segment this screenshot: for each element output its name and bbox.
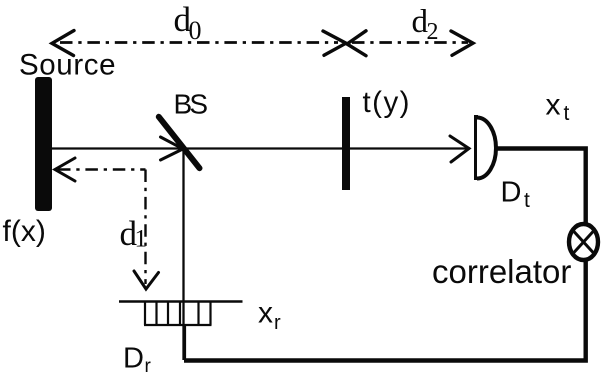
node d2 right arrowhead bbox=[451, 31, 473, 55]
wire d2 dash-dot distance line bbox=[352, 41, 468, 44]
svg-text:x: x bbox=[546, 89, 561, 122]
svg-text:t(y): t(y) bbox=[363, 86, 410, 119]
svg-text:BS: BS bbox=[174, 89, 209, 120]
correlator multiplier symbol bbox=[569, 224, 598, 260]
detector Dr comb bottom line bbox=[144, 324, 212, 326]
svg-text:x: x bbox=[258, 297, 273, 330]
svg-text:1: 1 bbox=[135, 226, 148, 253]
svg-text:D: D bbox=[123, 343, 144, 375]
wire thick output from Dt to correlator to Dr bbox=[184, 149, 586, 361]
wire main beam horizontal line bbox=[52, 147, 470, 149]
node d1 down arrowhead bbox=[134, 271, 159, 289]
svg-text:r: r bbox=[145, 356, 152, 377]
svg-text:2: 2 bbox=[427, 19, 439, 45]
svg-text:D: D bbox=[501, 177, 522, 209]
node d2 left arrowhead bbox=[347, 31, 366, 56]
svg-text:Source: Source bbox=[19, 48, 116, 81]
node d1 left arrowhead bbox=[55, 158, 75, 181]
node beam arrowhead at BS bbox=[161, 137, 184, 160]
svg-text:t: t bbox=[564, 102, 570, 125]
svg-text:t: t bbox=[524, 189, 530, 212]
svg-text:0: 0 bbox=[189, 16, 202, 45]
svg-text:r: r bbox=[274, 312, 281, 334]
detector Dr comb teeth bbox=[145, 302, 211, 326]
detector Dt D-shape bbox=[474, 115, 478, 180]
node d0 right arrowhead bbox=[323, 31, 346, 55]
detector Dr comb top line bbox=[119, 300, 243, 303]
svg-text:correlator: correlator bbox=[432, 253, 571, 290]
svg-text:f(x): f(x) bbox=[3, 215, 46, 248]
wire d0 dash-dot distance line bbox=[60, 41, 338, 44]
node beam arrowhead at Dt bbox=[450, 136, 469, 162]
node d0 left arrowhead bbox=[52, 31, 74, 56]
beam splitter BS diagonal bbox=[159, 117, 200, 168]
wire d1 vertical dash-dot bbox=[144, 170, 146, 285]
wire vertical beam from BS down bbox=[182, 149, 184, 361]
wire d1 horizontal dash-dot bbox=[58, 168, 146, 170]
object plane bar t(y) bbox=[342, 97, 350, 190]
source plane bar f(x) bbox=[35, 77, 52, 211]
